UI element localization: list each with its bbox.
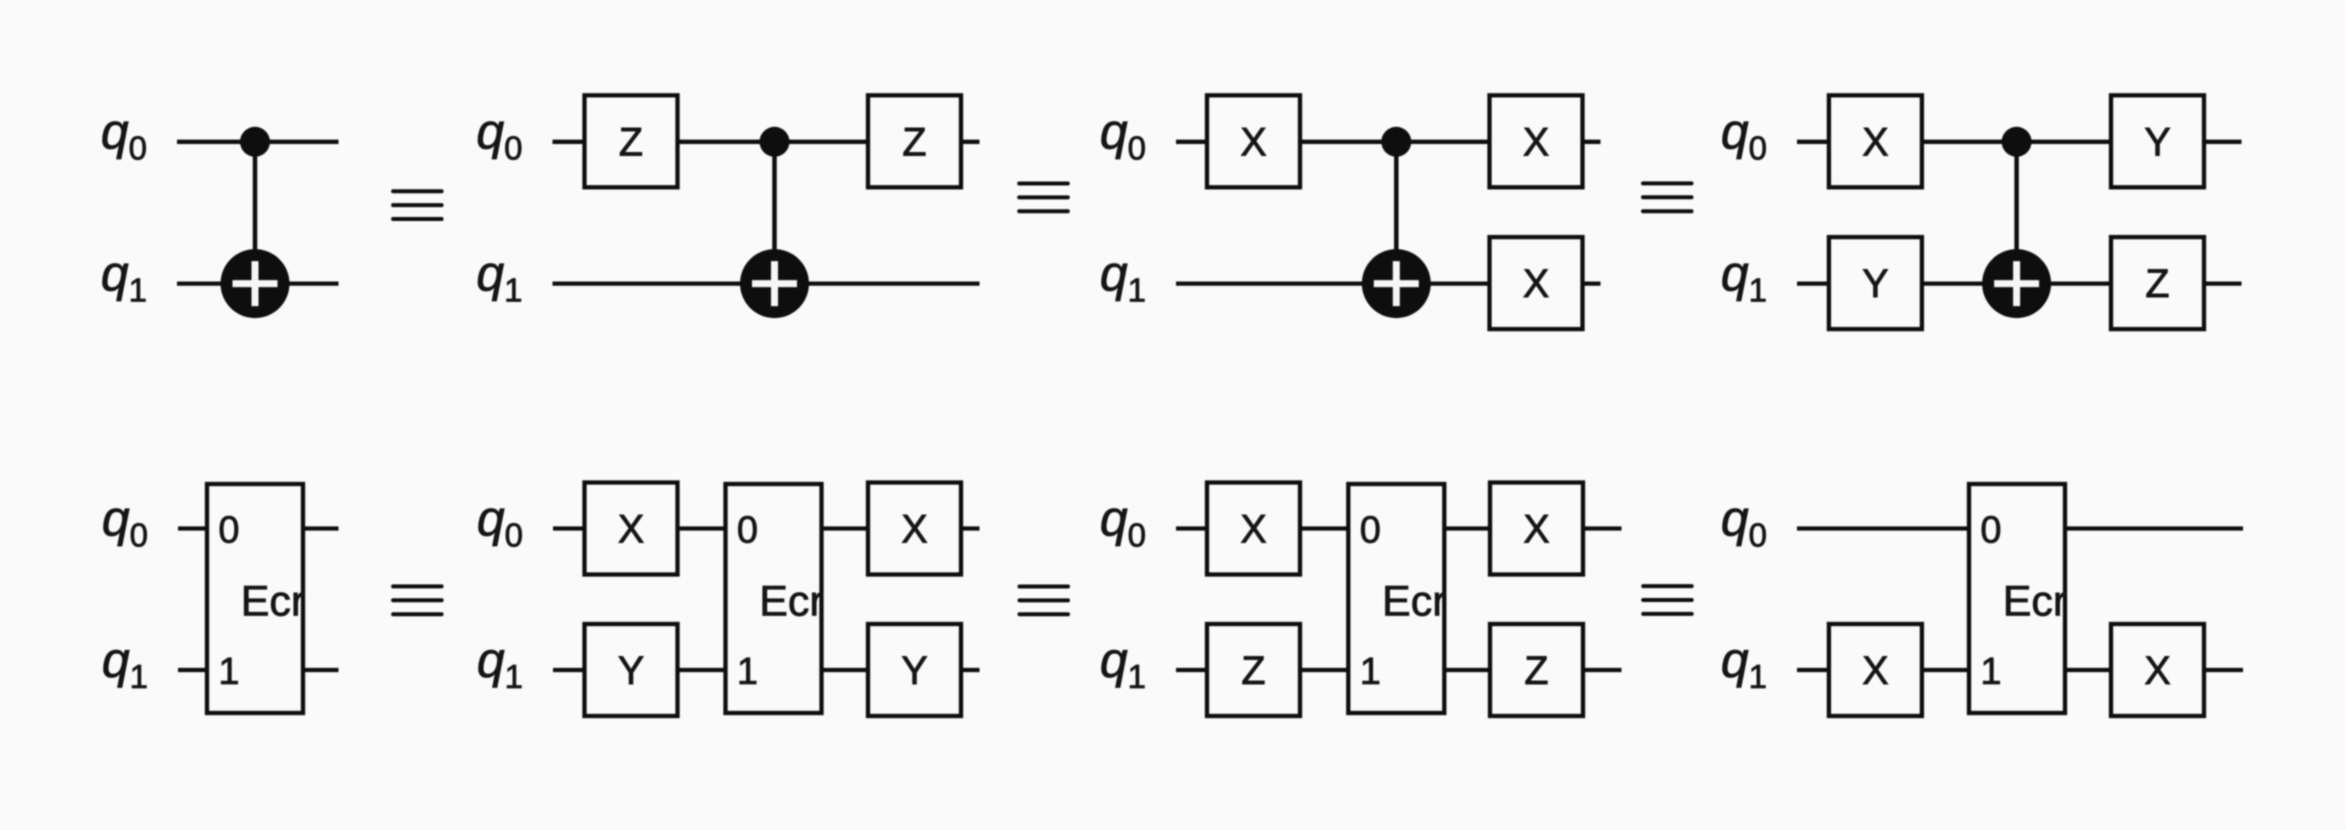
- Ecr gate box (circuit B2): [726, 484, 822, 713]
- gate Z first on q1 (circuit C2): [1207, 624, 1300, 716]
- svg-text:X: X: [1862, 120, 1888, 164]
- svg-text:Ecr: Ecr: [2003, 578, 2068, 626]
- svg-text:1: 1: [737, 651, 758, 693]
- gate X on q1 (circuit C1): [1490, 237, 1583, 329]
- svg-text:Ecr: Ecr: [241, 578, 306, 626]
- svg-text:X: X: [1862, 649, 1888, 693]
- svg-text:X: X: [1240, 508, 1266, 552]
- CNOT connector (circuit C1): [1394, 142, 1399, 284]
- gate Z on q1 (circuit D1): [2111, 237, 2204, 329]
- CNOT target on q1 (circuit C1): [1362, 249, 1431, 318]
- gate Y second on q1 (circuit B2): [868, 624, 961, 716]
- CNOT connector (circuit B1): [772, 142, 777, 284]
- gate Y on q0 (circuit D1): [2111, 95, 2204, 187]
- Ecr gate box (circuit A2): [207, 484, 303, 713]
- svg-text:Z: Z: [902, 120, 926, 164]
- CNOT control dot on q0 (circuit D1): [2002, 127, 2032, 157]
- gate Z first on q0 (circuit B1): [585, 95, 678, 187]
- wire q1 (circuit A1): [177, 281, 339, 285]
- equivalence sign 2 row 1: [1019, 184, 1068, 212]
- Ecr gate box (circuit D2): [1969, 484, 2065, 713]
- wire q0 (circuit A1): [177, 140, 339, 144]
- wire q1 (circuit C2): [1176, 668, 1622, 672]
- wire q1 (circuit B1): [553, 281, 980, 285]
- svg-text:Y: Y: [618, 649, 644, 693]
- CNOT control-target connector (circuit A1): [253, 142, 258, 284]
- gate X second on q0 (circuit C2): [1490, 483, 1583, 575]
- gate X first on q0 (circuit B2): [585, 483, 678, 575]
- equivalence sign 3 row 2: [1643, 586, 1692, 614]
- gate X second on q1 (circuit D2): [2111, 624, 2204, 716]
- equivalence sign 1 row 2: [393, 586, 442, 614]
- wire q0 (circuit C2): [1176, 526, 1622, 530]
- equivalence sign 3 row 1: [1643, 183, 1692, 211]
- wire q0 (circuit A2): [178, 526, 339, 530]
- Ecr gate box (circuit C2): [1348, 484, 1444, 713]
- svg-text:1: 1: [1980, 651, 2001, 693]
- wire q1 (circuit B2): [553, 668, 980, 672]
- wire q0 (circuit B2): [553, 526, 980, 530]
- wire q1 (circuit C1): [1176, 281, 1601, 285]
- equivalence sign 1 row 1: [393, 191, 442, 219]
- svg-text:Y: Y: [1862, 262, 1888, 306]
- gate X first on q0 (circuit C1): [1207, 95, 1300, 187]
- svg-text:X: X: [901, 508, 927, 552]
- svg-text:Ecr: Ecr: [759, 578, 824, 626]
- wire q1 (circuit D2): [1797, 668, 2243, 672]
- CNOT target on q1 (circuit B1): [740, 249, 809, 318]
- gate Z second on q0 (circuit B1): [868, 95, 961, 187]
- CNOT control dot on q0 (circuit C1): [1381, 127, 1411, 157]
- CNOT control dot on q0 (circuit A1): [240, 127, 270, 157]
- svg-text:Z: Z: [1524, 649, 1548, 693]
- svg-text:X: X: [2144, 649, 2170, 693]
- svg-text:Z: Z: [619, 120, 643, 164]
- wire q0 (circuit D1): [1797, 140, 2242, 144]
- wire q1 (circuit D1): [1797, 281, 2242, 285]
- svg-text:X: X: [1240, 120, 1266, 164]
- wire q0 (circuit B1): [553, 140, 980, 144]
- svg-text:Y: Y: [901, 649, 927, 693]
- svg-text:Ecr: Ecr: [1382, 578, 1447, 626]
- gate Y first on q1 (circuit B2): [585, 624, 678, 716]
- gate X second on q0 (circuit B2): [868, 483, 961, 575]
- gate Y on q1 (circuit D1): [1829, 237, 1922, 329]
- svg-text:Y: Y: [2144, 120, 2170, 164]
- CNOT connector (circuit D1): [2014, 142, 2019, 284]
- gate Z second on q1 (circuit C2): [1490, 624, 1583, 716]
- svg-text:0: 0: [218, 509, 239, 551]
- svg-text:X: X: [1523, 262, 1549, 306]
- gate X first on q0 (circuit C2): [1207, 483, 1300, 575]
- svg-text:1: 1: [1360, 651, 1381, 693]
- svg-text:1: 1: [218, 651, 239, 693]
- svg-text:0: 0: [1360, 509, 1381, 551]
- CNOT target on q1 (circuit D1): [1982, 249, 2051, 318]
- CNOT control dot on q0 (circuit B1): [760, 127, 790, 157]
- CNOT target on q1 (circuit A1): [221, 249, 290, 318]
- svg-text:0: 0: [737, 509, 758, 551]
- wire q0 (circuit D2): [1797, 526, 2243, 530]
- wire q0 (circuit C1): [1176, 140, 1601, 144]
- gate X on q0 (circuit D1): [1829, 95, 1922, 187]
- equivalence sign 2 row 2: [1020, 587, 1069, 615]
- wire q1 (circuit A2): [178, 668, 339, 672]
- svg-text:X: X: [1523, 120, 1549, 164]
- svg-text:X: X: [618, 508, 644, 552]
- svg-text:X: X: [1523, 508, 1549, 552]
- svg-text:0: 0: [1980, 509, 2001, 551]
- gate X first on q1 (circuit D2): [1829, 624, 1922, 716]
- gate X second on q0 (circuit C1): [1490, 95, 1583, 187]
- svg-text:Z: Z: [1241, 649, 1265, 693]
- svg-text:Z: Z: [2145, 262, 2169, 306]
